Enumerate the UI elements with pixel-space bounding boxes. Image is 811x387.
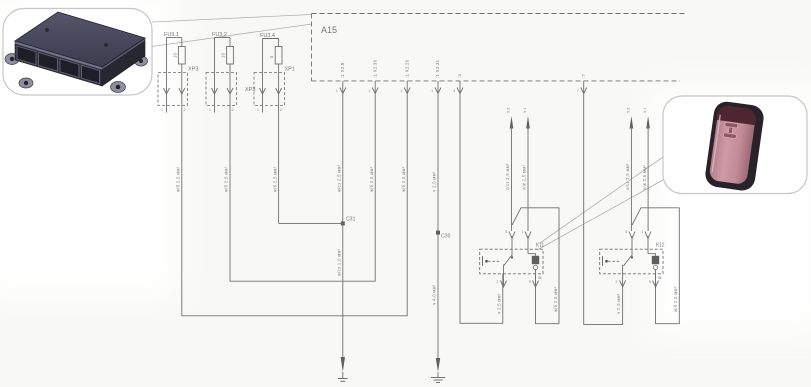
- svg-text:7: 7: [577, 89, 579, 93]
- svg-text:Х:1: Х:1: [523, 108, 527, 113]
- relay K11 contact blade: [504, 256, 512, 267]
- wire through fuse1: [181, 65, 183, 316]
- svg-text:2: 2: [616, 280, 618, 284]
- fuse FU3.4 body: [275, 47, 282, 65]
- remote control photo: [704, 100, 765, 192]
- mounting tabs: [5, 54, 148, 93]
- svg-text::1 Х2.8: :1 Х2.8: [340, 62, 345, 78]
- svg-text:4: 4: [453, 89, 455, 93]
- node C30 junction dot: [436, 231, 440, 235]
- wire through fuse2: [229, 65, 231, 282]
- svg-text:ж/б 2,5 мм²: ж/б 2,5 мм²: [401, 166, 406, 192]
- pin arrow A15-5: [457, 88, 463, 94]
- ground G1: [341, 357, 345, 372]
- svg-text::1 Х2.31: :1 Х2.31: [435, 59, 440, 78]
- svg-text:ж/б 2,5 мм²: ж/б 2,5 мм²: [272, 166, 277, 192]
- wire arrow up 1a: [510, 116, 514, 129]
- pin arrow (fuse2 left): [212, 88, 218, 94]
- svg-text:5: 5: [506, 230, 508, 234]
- svg-text:10: 10: [221, 52, 226, 58]
- svg-text:A15: A15: [321, 25, 337, 35]
- svg-text:Х:1: Х:1: [643, 108, 647, 113]
- svg-text:ХРЗ: ХРЗ: [245, 87, 256, 93]
- pin arrow K11 switch in: [509, 232, 515, 239]
- connector XF3 dashed box 2: [206, 73, 237, 106]
- wire A15 pin5 to relay K11 contact output: [460, 81, 503, 323]
- svg-text:10: 10: [173, 52, 178, 58]
- svg-text:СЗ1: СЗ1: [346, 217, 356, 223]
- pin arrow K12 coil in: [645, 232, 651, 239]
- relay K12 dashed box: [600, 249, 663, 274]
- pin arrow A15-6: [581, 88, 587, 94]
- svg-text:2: 2: [497, 280, 499, 284]
- svg-text:5: 5: [269, 55, 274, 58]
- svg-text:5: 5: [626, 230, 628, 234]
- pin arrow K12 coil out: [653, 281, 659, 288]
- fuse FU3.4 bracket: [263, 38, 279, 40]
- connector blocks: [17, 46, 100, 84]
- svg-text:1: 1: [209, 108, 211, 112]
- pin arrow K12 switch in: [629, 232, 635, 239]
- callout line from remote inset to relay K11 (upper): [540, 157, 663, 243]
- fuse FU9.1 body: [178, 47, 185, 65]
- fuse FU9.1 bracket: [167, 37, 182, 39]
- pin arrow (fuse3 right): [276, 88, 282, 94]
- relay K11 dashed box: [480, 249, 543, 274]
- wire A15 pin6 to relay K12 contact output: [584, 81, 623, 325]
- pin arrow A15-2: [372, 88, 378, 94]
- wire arrow up 2b: [646, 116, 650, 129]
- pin arrow (fuse1 left): [164, 88, 170, 94]
- svg-text:К12: К12: [656, 243, 665, 249]
- wire A15 pin3 elbow to fuse1: [182, 81, 407, 316]
- relay K11 contact output wire: [503, 265, 505, 287]
- callout line from remote inset to relay K11 (lower): [537, 180, 663, 250]
- svg-text::1 Х2.30: :1 Х2.30: [372, 59, 377, 78]
- pin arrow A15-4: [435, 88, 441, 94]
- pin arrow K11 coil in: [525, 232, 531, 239]
- svg-text:СЗ0: СЗ0: [441, 234, 451, 240]
- relay K12 contact output wire: [622, 265, 624, 275]
- svg-text:х/ж 2,5 мм²: х/ж 2,5 мм²: [642, 165, 647, 190]
- pin arrow A15-1: [340, 88, 346, 94]
- svg-text:ч 2,5 мм²: ч 2,5 мм²: [616, 293, 621, 314]
- relay K11 fixed contact: [482, 256, 484, 266]
- fuse FU3.2 body: [227, 47, 234, 65]
- wire (fuse1 left leg): [166, 38, 168, 113]
- svg-text:Х:2: Х:2: [626, 108, 630, 113]
- relay K12 fixed contact: [602, 256, 604, 266]
- A15 control unit dashed box: [312, 14, 686, 81]
- wire arrow up 2a: [630, 116, 634, 129]
- svg-text:1: 1: [642, 230, 644, 234]
- connector dashed box 3: [254, 73, 285, 106]
- svg-text:ж/б 2,5 мм²: ж/б 2,5 мм²: [224, 166, 229, 192]
- screws on top: [45, 28, 49, 32]
- callout line from ECU inset to A15 (lower): [152, 24, 312, 47]
- svg-text:К11: К11: [536, 243, 544, 249]
- ground G2: [436, 358, 440, 372]
- svg-text::7: :7: [581, 73, 586, 78]
- pin arrow (fuse3 left): [260, 88, 266, 94]
- connector XF3 dashed box: [158, 73, 188, 106]
- svg-text:х/ж 2,5 мм²: х/ж 2,5 мм²: [522, 165, 527, 190]
- pin arrow K11 coil out: [533, 281, 539, 288]
- wire through fuse3: [278, 65, 280, 224]
- svg-text:ч 2,5 мм²: ч 2,5 мм²: [432, 171, 437, 192]
- wire (fuse1 right leg upper): [181, 38, 183, 47]
- svg-text:86: 86: [658, 276, 662, 280]
- svg-text:ХРЗ: ХРЗ: [188, 67, 199, 73]
- svg-text:х/сз 2,5 мм²: х/сз 2,5 мм²: [505, 163, 510, 190]
- photo inset box (ECU, top-left): [3, 9, 152, 96]
- svg-text:1: 1: [336, 89, 338, 93]
- svg-text:8: 8: [529, 280, 531, 284]
- svg-text:ж/б 2,5 мм²: ж/б 2,5 мм²: [673, 286, 678, 312]
- wire arrow up 1b: [526, 116, 530, 129]
- svg-text:ж/сз 2,5 мм²: ж/сз 2,5 мм²: [337, 164, 342, 192]
- wire A15 pin2 elbow to fuse2: [230, 81, 375, 281]
- photo inset box (remote, right): [663, 96, 807, 194]
- callout line from ECU inset to A15 (upper): [152, 15, 312, 23]
- wire (fuse3 right leg upper): [278, 39, 280, 47]
- body faces: [15, 12, 145, 67]
- svg-text::1 Х2.20: :1 Х2.20: [404, 59, 409, 78]
- svg-text:1: 1: [431, 89, 433, 93]
- ECU module photo: [5, 12, 148, 93]
- pin arrow (fuse2 right): [227, 88, 233, 94]
- svg-text:2: 2: [184, 108, 186, 112]
- svg-text:86: 86: [538, 276, 542, 280]
- svg-text:1: 1: [522, 230, 524, 234]
- tiny contact numbers at A15 pins: [336, 89, 579, 93]
- wire A15 pin1 to ground G1: [342, 81, 344, 357]
- svg-text:2: 2: [280, 108, 282, 112]
- front rail highlight: [15, 43, 102, 69]
- svg-text:1: 1: [257, 108, 259, 112]
- pin arrow (fuse1 right): [179, 88, 185, 94]
- svg-text:ж/сз 1,0 мм²: ж/сз 1,0 мм²: [337, 248, 342, 276]
- svg-text:ж/б 2,5 мм²: ж/б 2,5 мм²: [176, 166, 181, 192]
- relay K11 branch: coil return loop: [512, 208, 559, 324]
- wire (fuse2 left leg): [214, 38, 216, 113]
- wire A15 pin4 to ground G2: [437, 81, 439, 360]
- relay K11 coil: [528, 254, 536, 256]
- svg-text:8: 8: [649, 280, 651, 284]
- fuse FU3.2 bracket: [215, 37, 231, 39]
- relay K12 coil: [648, 254, 656, 256]
- relay K12 contact blade: [624, 256, 632, 267]
- svg-text:ж/б 2,5 мм²: ж/б 2,5 мм²: [369, 166, 374, 192]
- svg-text:1: 1: [368, 89, 370, 93]
- svg-text:2: 2: [232, 108, 234, 112]
- svg-text:ч 4,0 мм²: ч 4,0 мм²: [432, 284, 437, 305]
- wire (fuse3 left leg): [262, 39, 264, 113]
- svg-text:ХР1: ХР1: [285, 67, 295, 73]
- wire (fuse2 right leg upper): [229, 38, 231, 47]
- pin arrow K11 contact out: [501, 281, 507, 288]
- svg-text:ч 2,5 мм²: ч 2,5 мм²: [497, 293, 502, 314]
- svg-text:ж/б 2,5 мм²: ж/б 2,5 мм²: [553, 286, 558, 312]
- node C31 junction dot: [341, 221, 345, 225]
- pin arrow K12 contact out: [620, 281, 626, 288]
- pin arrow A15-3: [404, 88, 410, 94]
- svg-text:х/сз 2,5 мм²: х/сз 2,5 мм²: [625, 163, 630, 190]
- svg-text:1: 1: [400, 89, 402, 93]
- svg-text::4: :4: [457, 73, 462, 78]
- svg-text:Х:2: Х:2: [507, 108, 511, 113]
- wire fuse3 to node C31: [279, 222, 343, 224]
- relay K12 branch: coil return loop: [632, 208, 679, 324]
- svg-text:1: 1: [161, 108, 163, 112]
